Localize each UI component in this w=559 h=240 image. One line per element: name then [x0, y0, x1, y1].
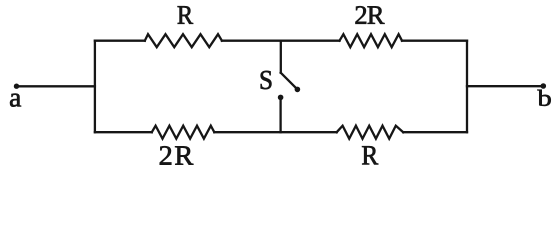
resistor 2R (bottom left) — [152, 126, 215, 139]
switch S lever contact dot — [295, 87, 301, 93]
wire switch branch lower — [279, 97, 281, 132]
label S — [261, 71, 272, 89]
wire right rail to b — [467, 85, 543, 87]
wire right vertical rail — [466, 41, 468, 133]
node a terminal dot — [14, 84, 19, 89]
wire bottom rail middle segment — [214, 131, 336, 133]
resistor R (top left) — [145, 34, 222, 47]
switch S lever arm — [281, 73, 298, 90]
wire top rail left segment — [95, 40, 145, 42]
switch S fixed contact dot — [278, 95, 284, 101]
label R bot — [362, 146, 378, 164]
label 2R top — [356, 6, 385, 24]
wire switch branch upper — [280, 41, 282, 73]
resistor R (bottom right) — [337, 126, 404, 139]
label R top — [178, 6, 194, 24]
wire bottom rail right segment — [403, 131, 467, 133]
wire top rail right segment — [402, 40, 467, 42]
wire left vertical rail — [94, 41, 96, 133]
wire bottom rail left segment — [95, 131, 152, 133]
resistor 2R (top right) — [340, 34, 403, 47]
label 2R bot — [160, 146, 194, 164]
label a — [10, 94, 21, 107]
wire top rail middle segment — [222, 40, 340, 42]
node b terminal dot — [541, 83, 547, 89]
label b — [537, 90, 550, 106]
wire a to left rail — [17, 85, 95, 87]
